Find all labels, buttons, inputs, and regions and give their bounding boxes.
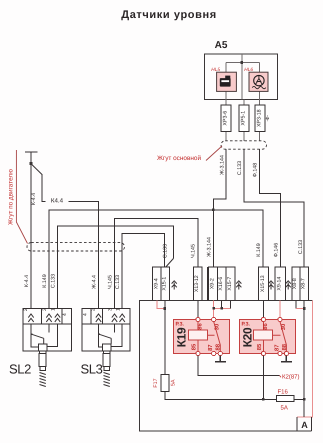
svg-text:Ж-3.144: Ж-3.144 — [219, 155, 225, 175]
svg-text:Р.3.: Р.3. — [176, 322, 185, 328]
svg-text:1: 1 — [115, 308, 121, 311]
svg-text:Х8-8: Х8-8 — [292, 278, 298, 289]
wire XP5-1 stub — [243, 100, 245, 141]
lamp HL6 — [244, 67, 268, 92]
svg-text:К.149: К.149 — [256, 243, 262, 256]
relay K19 — [174, 317, 230, 355]
svg-text:Датчики уровня: Датчики уровня — [121, 9, 216, 21]
pin box XP3-6 — [221, 105, 231, 132]
svg-text:Х9-2: Х9-2 — [210, 278, 216, 289]
svg-text:87: 87 — [207, 344, 214, 350]
wire HL6 top — [258, 63, 260, 73]
svg-text:Х9-4: Х9-4 — [153, 278, 159, 289]
instrument cluster A5 — [205, 54, 278, 100]
svg-text:К-4.4: К-4.4 — [24, 275, 30, 287]
connector X9-14 — [275, 267, 286, 301]
relay K20 — [240, 317, 296, 355]
svg-text:Х13-12: Х13-12 — [194, 275, 200, 292]
svg-text:К.149: К.149 — [42, 274, 48, 287]
wire X9-2 to K19.30 (red) — [213, 301, 215, 318]
wire X8-7 down (power) — [303, 301, 305, 418]
connector X13-12 — [194, 267, 202, 301]
svg-text:-Ф-: -Ф- — [265, 114, 270, 121]
svg-text:С.133: С.133 — [237, 161, 243, 175]
svg-text:Х9-14: Х9-14 — [277, 277, 283, 291]
svg-text:1: 1 — [50, 308, 56, 311]
svg-text:А: А — [301, 420, 308, 430]
node bus X9-2 — [212, 307, 215, 310]
svg-text:2: 2 — [23, 308, 29, 311]
wire Ж-3.144 from XP3-6 — [213, 149, 226, 267]
svg-text:5А: 5А — [171, 379, 177, 386]
svg-text:3: 3 — [107, 308, 113, 311]
svg-text:К19: К19 — [175, 327, 189, 347]
wire F16 to power — [294, 398, 304, 400]
svg-text:87: 87 — [273, 344, 280, 350]
wire F17 to bus — [165, 391, 277, 399]
wire К-4.4 down to SL2 — [30, 165, 32, 309]
connector X9-2/X16-6/X15-7 — [208, 267, 236, 301]
svg-text:86: 86 — [262, 323, 269, 330]
svg-text:К-4.4: К-4.4 — [31, 193, 37, 205]
svg-text:ХР5-1: ХР5-1 — [240, 111, 246, 126]
node bus X16-6 — [220, 307, 223, 310]
connector X9-4/X15-1 — [153, 267, 170, 301]
svg-text:Ж-3.144: Ж-3.144 — [207, 237, 213, 257]
svg-text:30: 30 — [280, 324, 287, 330]
svg-text:Ф.148: Ф.148 — [253, 163, 259, 177]
svg-text:HL6: HL6 — [244, 67, 253, 73]
arrow harness 4 — [286, 281, 291, 290]
svg-text:К20: К20 — [241, 327, 255, 347]
svg-text:Х15-1: Х15-1 — [162, 277, 168, 291]
svg-text:SL3: SL3 — [81, 362, 103, 377]
wire A5 center — [241, 54, 243, 100]
wire X8-8 jog (red) — [296, 308, 304, 310]
wire X9-14 to K20.30 (red) — [279, 301, 281, 318]
wire K20.85 down — [262, 356, 264, 400]
svg-text:Жгут основной: Жгут основной — [157, 155, 201, 162]
pin box XP3-18 — [255, 105, 265, 132]
svg-text:Ф.146: Ф.146 — [274, 243, 280, 257]
node bus K20.85 — [262, 398, 265, 401]
connector X15-13 — [258, 267, 268, 301]
arrow harness 1 — [172, 281, 177, 290]
node X9-4/X15-1 join — [164, 307, 167, 310]
wire X15-13 to K20.86 — [262, 301, 264, 318]
svg-text:86: 86 — [197, 323, 204, 330]
wire X16-6 stub — [221, 301, 223, 309]
svg-text:С.133: С.133 — [115, 275, 121, 289]
svg-text:ХР3-6: ХР3-6 — [222, 111, 228, 126]
wire С.133 SL2 pin1 to X15-1 — [58, 226, 174, 309]
connector X8-8/X8-7 — [292, 267, 309, 301]
svg-text:ХР3-18: ХР3-18 — [256, 109, 262, 127]
svg-text:Х15-7: Х15-7 — [227, 277, 233, 291]
svg-text:F16: F16 — [278, 389, 289, 396]
svg-text:С.133: С.133 — [50, 274, 56, 288]
wire X8-8 stub — [295, 301, 297, 309]
arrow harness 2 — [236, 281, 241, 290]
wire X15-7 stub — [230, 301, 232, 309]
sensor SL2 — [23, 308, 72, 387]
wire X9-4 jog (red) — [157, 301, 165, 309]
wire К.149 SL2 pin3 to X15-13 — [49, 210, 263, 309]
svg-text:4: 4 — [62, 313, 68, 316]
wire XP3-18 stub — [258, 100, 260, 141]
svg-text:85: 85 — [256, 343, 263, 350]
leader harness main — [206, 146, 222, 161]
svg-text:Ж-4.4: Ж-4.4 — [92, 275, 98, 289]
svg-text:К4.4: К4.4 — [51, 198, 64, 205]
svg-text:F17: F17 — [153, 378, 159, 387]
node power — [303, 398, 306, 401]
wire Ч.145 SL3 pin3 to X13-12 — [115, 218, 199, 309]
ground K19 — [215, 356, 226, 362]
svg-text:Х16-6: Х16-6 — [218, 277, 224, 291]
node engine junction — [29, 162, 32, 165]
lamp HL5 — [211, 67, 236, 92]
svg-text:Жгут по двигателю: Жгут по двигателю — [8, 169, 15, 225]
wire К4.4 branch to SL3 — [32, 165, 42, 175]
wire HL5 bottom — [225, 91, 227, 99]
svg-text:Ч.145: Ч.145 — [191, 244, 197, 258]
svg-text:88: 88 — [215, 343, 222, 350]
fuse F17 — [153, 374, 176, 391]
svg-text:HL5: HL5 — [211, 67, 220, 73]
wire lamp bus — [226, 62, 259, 64]
svg-text:Ч.145: Ч.145 — [107, 275, 113, 289]
svg-text:Х15-13: Х15-13 — [260, 275, 266, 292]
harness engine (dashed) — [27, 243, 125, 251]
wire red bus K19.30 — [214, 307, 231, 309]
wire С.133 SL3 pin1 to X15-1 — [122, 234, 164, 310]
sensor SL3 — [82, 308, 130, 387]
pin box XP5-1 — [239, 105, 249, 132]
svg-text:Р.3.: Р.3. — [242, 322, 251, 328]
leader harness engine — [16, 150, 27, 244]
fuse F16 — [277, 389, 295, 412]
label box A — [297, 417, 312, 431]
svg-text:88: 88 — [281, 343, 288, 350]
svg-text:4: 4 — [83, 313, 89, 316]
wire X15-1 to F17 — [164, 301, 166, 375]
ground K20 — [281, 356, 292, 362]
node X8-7 join — [303, 307, 306, 310]
svg-text:SL2: SL2 — [9, 362, 31, 377]
wire С.133 from XP5-1 — [244, 149, 304, 267]
svg-text:30: 30 — [214, 324, 221, 330]
wire HL5 top — [225, 63, 227, 73]
mounting block red edge — [297, 301, 312, 418]
wire HL6 bottom — [258, 91, 260, 99]
wire X13-12 to K19.86 — [197, 301, 199, 318]
svg-text:С.133: С.133 — [298, 240, 304, 254]
node lamp bus / center — [241, 61, 244, 64]
svg-text:3: 3 — [42, 308, 48, 311]
svg-text:Х8-7: Х8-7 — [301, 278, 307, 289]
wire XP3-6 stub — [225, 100, 227, 141]
wire K19.85 to K2(87) — [198, 356, 280, 376]
node Ж-3.144 / К.149 rail — [212, 209, 215, 212]
wire Ф.148 from XP3-18 — [259, 149, 280, 267]
arrow harness 3 — [268, 281, 273, 290]
svg-text:85: 85 — [190, 343, 197, 350]
svg-text:К2(87): К2(87) — [282, 374, 300, 381]
svg-text:А5: А5 — [215, 40, 228, 51]
svg-text:С.133: С.133 — [163, 244, 169, 258]
terminal engine — [25, 152, 38, 164]
svg-text:2: 2 — [91, 308, 97, 311]
svg-text:5А: 5А — [281, 405, 288, 412]
harness main (dashed) — [221, 141, 267, 149]
mounting block A outline — [140, 301, 313, 432]
